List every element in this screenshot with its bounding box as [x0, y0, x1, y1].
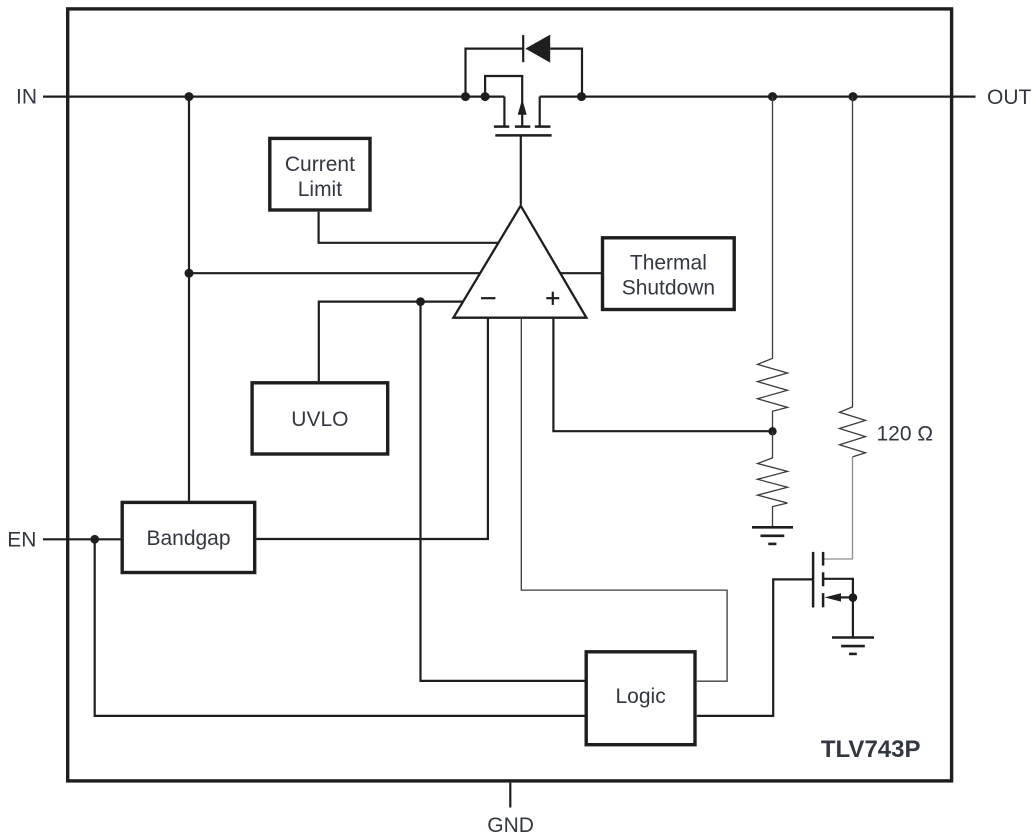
- junction 120-ohm top: [849, 92, 858, 101]
- IC boundary box: [68, 9, 952, 781]
- wire sense to logic input: [421, 302, 587, 681]
- svg-text:IN: IN: [16, 86, 37, 109]
- wire current limit to amp: [319, 212, 498, 243]
- GND pin stub: [509, 783, 511, 808]
- svg-text:OUT: OUT: [987, 86, 1032, 109]
- junction IN sense: [185, 269, 194, 278]
- resistor R3 120 ohm: [840, 97, 866, 457]
- wire IN sense to amp: [189, 272, 480, 274]
- junction feedback top: [768, 92, 777, 101]
- ground (Q2 source): [832, 638, 874, 654]
- svg-text:Logic: Logic: [615, 685, 665, 708]
- svg-text:Bandgap: Bandgap: [146, 527, 230, 550]
- thermal shutdown block: [603, 238, 735, 310]
- svg-text:GND: GND: [487, 814, 534, 837]
- wire OUT rail: [540, 95, 976, 97]
- wire bandgap to amp non-inverting branch: [256, 318, 488, 539]
- junction EN: [90, 535, 99, 544]
- resistor R1 (feedback top): [758, 97, 788, 432]
- wire logic to Q2 gate: [697, 579, 812, 716]
- junction feedback node: [768, 427, 776, 435]
- wire R3 to Q2 drain (gray): [823, 457, 852, 559]
- wire amp to thermal shutdown: [561, 272, 602, 274]
- junction Q2 source-body: [849, 593, 858, 602]
- junction Q1 body: [481, 92, 490, 101]
- junction diode right: [577, 92, 586, 101]
- wire IN column to bandgap: [188, 97, 190, 501]
- logic block: [586, 652, 695, 745]
- wire amp + input to feedback node: [553, 318, 770, 432]
- svg-text:TLV743P: TLV743P: [821, 736, 921, 763]
- ground (feedback divider): [752, 527, 793, 544]
- wire EN input: [43, 538, 121, 540]
- junction IN column: [185, 92, 194, 101]
- svg-text:120 Ω: 120 Ω: [877, 422, 934, 445]
- svg-text:EN: EN: [7, 529, 36, 552]
- wire UVLO to amp inverting input: [319, 302, 463, 382]
- svg-text:Limit: Limit: [298, 178, 343, 201]
- transistor Q2 (NMOS discharge): [813, 552, 853, 638]
- wire IN rail: [43, 95, 504, 97]
- wire EN to logic: [95, 539, 587, 716]
- wire amp base to logic (thin): [521, 318, 727, 682]
- pass transistor Q1 (PMOS): [485, 76, 551, 135]
- svg-text:Shutdown: Shutdown: [622, 276, 715, 299]
- UVLO block: [252, 383, 388, 454]
- junction diode left: [461, 92, 470, 101]
- body diode D1 of pass FET: [466, 35, 583, 97]
- op-amp error amplifier U1: [453, 206, 586, 318]
- svg-text:UVLO: UVLO: [291, 408, 348, 431]
- resistor R2 (feedback bottom): [758, 431, 788, 527]
- bandgap block: [122, 502, 255, 572]
- svg-text:Current: Current: [285, 153, 355, 176]
- junction UVLO/logic sense: [416, 297, 425, 306]
- svg-text:Thermal: Thermal: [630, 252, 707, 275]
- current limit block: [270, 138, 370, 210]
- wire Q1 gate to error amp: [520, 135, 522, 204]
